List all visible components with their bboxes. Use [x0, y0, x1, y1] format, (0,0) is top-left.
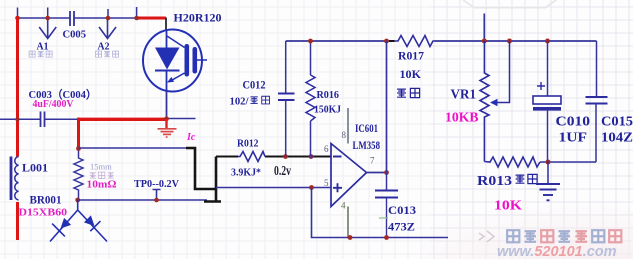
svg-text:15mm: 15mm — [90, 162, 112, 172]
resistor shunt — [74, 149, 83, 201]
node shunt top — [76, 146, 81, 151]
svg-text:10mΩ: 10mΩ — [87, 180, 117, 191]
resistor R016 — [306, 75, 315, 121]
red bus horizontal — [79, 118, 168, 121]
capacitor C015 — [586, 97, 608, 104]
wire emitter to right dangling — [167, 118, 196, 120]
svg-text:104Z: 104Z — [601, 131, 633, 146]
resistor R013 — [484, 157, 540, 167]
svg-text:5: 5 — [324, 178, 329, 188]
svg-text:LM358: LM358 — [353, 138, 381, 152]
node dots top row — [15, 16, 139, 21]
wire vcc stub — [483, 14, 485, 42]
svg-text:VR1: VR1 — [451, 86, 477, 101]
wiper VR1 — [496, 41, 510, 103]
svg-text:C005: C005 — [63, 29, 87, 41]
svg-text:Ic: Ic — [186, 132, 196, 143]
wire output pin7 — [367, 172, 387, 174]
wire black R012 to pin6 — [265, 156, 331, 158]
svg-text:8: 8 — [342, 130, 347, 140]
label A1 cn — [29, 51, 52, 57]
svg-text:150KJ: 150KJ — [314, 104, 341, 116]
label kang tong si cn — [90, 172, 114, 178]
test point TP0 — [153, 190, 161, 200]
wire black to R012 — [216, 156, 238, 158]
resistor R012 — [238, 152, 265, 162]
ground — [536, 162, 560, 200]
svg-text:R013: R013 — [477, 173, 512, 188]
capacitor C013 — [375, 191, 398, 198]
svg-text:H20R120: H20R120 — [174, 13, 222, 25]
capacitor C005 — [70, 11, 74, 26]
svg-text:TP0--0.2V: TP0--0.2V — [134, 178, 179, 190]
plus sign — [537, 82, 545, 90]
svg-text:10KB: 10KB — [445, 111, 479, 126]
wire feedback vertical — [386, 41, 388, 173]
label A2 cn — [96, 51, 119, 57]
svg-text:473Z: 473Z — [388, 220, 415, 234]
svg-text:C010: C010 — [556, 115, 591, 130]
wire top row — [18, 7, 138, 18]
wire top bus — [286, 40, 390, 42]
svg-text:4: 4 — [341, 201, 346, 211]
red bus vertical mid — [77, 118, 80, 149]
connector A1 — [39, 18, 56, 39]
svg-text:10K: 10K — [400, 67, 422, 81]
wire shunt top to right — [79, 147, 189, 149]
node top — [308, 39, 313, 44]
svg-text:R017: R017 — [398, 49, 424, 63]
wire C015 vertical — [595, 41, 598, 162]
capacitor C003 — [41, 112, 45, 128]
connector A2 — [99, 18, 116, 39]
watermark logo outline top-right — [463, 0, 557, 8]
wire R016 vertical — [310, 41, 312, 157]
capacitor C012 — [278, 94, 295, 101]
stronger grid right side — [430, 0, 633, 259]
wire bridge stub — [50, 200, 107, 242]
svg-text:IC601: IC601 — [355, 121, 378, 135]
wire C010 vertical — [547, 41, 549, 96]
diode D right — [84, 215, 95, 226]
svg-text:C013: C013 — [388, 203, 416, 217]
svg-text:10K: 10K — [494, 199, 522, 214]
wire C012 vertical — [285, 41, 287, 157]
wire left — [0, 118, 79, 120]
svg-text:3.9KJ*: 3.9KJ* — [231, 167, 261, 179]
nodes top right — [482, 39, 550, 44]
svg-text:4uF/400V: 4uF/400V — [33, 99, 74, 110]
op-amp U IC601 — [331, 144, 367, 207]
transistor Q H20R120 — [143, 18, 207, 92]
svg-text:6: 6 — [324, 144, 329, 154]
svg-text:L001: L001 — [22, 163, 48, 175]
wire to C013 — [386, 173, 388, 191]
svg-text:D15XB60: D15XB60 — [19, 207, 68, 219]
wire pin5 input — [216, 187, 331, 189]
diode D left — [61, 218, 72, 229]
svg-text:1UF: 1UF — [559, 131, 588, 146]
wire R013 to C015 — [540, 161, 596, 163]
emitter wire — [166, 92, 168, 119]
pin 4 — [347, 207, 349, 238]
pink wash bottom-right — [0, 0, 1, 1]
node emitter junction — [164, 116, 169, 121]
red bus vertical left — [16, 17, 19, 157]
wire top right — [435, 40, 597, 42]
wire C013 down — [386, 198, 388, 238]
wire black step 2 — [204, 157, 221, 202]
pin 8 — [347, 108, 349, 144]
svg-text:R016: R016 — [317, 89, 340, 101]
watermark hanzi — [507, 230, 621, 242]
pin tick green — [379, 217, 388, 219]
wire red top segment — [137, 17, 166, 20]
svg-text:C015: C015 — [601, 115, 633, 130]
wire bottom bus — [312, 188, 449, 238]
node shunt bottom — [75, 198, 80, 203]
ground (red) — [158, 119, 177, 137]
svg-text:C012: C012 — [243, 80, 266, 92]
node R012 out — [283, 154, 288, 159]
svg-text:www.520101.com: www.520101.com — [497, 244, 617, 259]
wire bottom row — [78, 199, 207, 201]
label cha jian cn — [516, 174, 538, 183]
svg-text:BR001: BR001 — [30, 195, 62, 207]
svg-text:7: 7 — [370, 156, 375, 166]
svg-text:R012: R012 — [237, 138, 259, 150]
label cha jian cn — [397, 88, 420, 97]
capacitor C010 — [533, 96, 561, 104]
inductor L001 — [11, 157, 19, 201]
resistor VR1 — [480, 41, 489, 162]
wire black bit — [389, 40, 395, 42]
svg-text:102/: 102/ — [230, 96, 250, 108]
svg-text:0.2v: 0.2v — [274, 163, 291, 178]
resistor R017 — [395, 36, 435, 47]
wire black step 1 — [186, 148, 216, 189]
red bus vertical bottom — [16, 202, 19, 240]
